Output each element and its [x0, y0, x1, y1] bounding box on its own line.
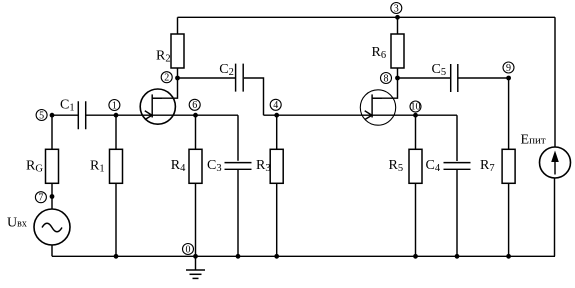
svg-text:5: 5 [39, 110, 44, 121]
node 6 [189, 99, 200, 117]
wire R5 bottom to ground rail [415, 183, 417, 256]
svg-text:C2: C2 [219, 62, 234, 78]
capacitor C3 [225, 163, 252, 170]
transistor VT2 [360, 90, 395, 125]
transistor VT1 [140, 89, 175, 124]
svg-text:Епит: Епит [521, 132, 546, 147]
capacitor C2 [236, 64, 244, 92]
svg-text:2: 2 [164, 73, 169, 84]
capacitor C1 [78, 101, 85, 129]
svg-text:R3: R3 [256, 158, 271, 174]
node 2 [161, 72, 180, 84]
node 4 [270, 99, 281, 117]
current source Epit [540, 147, 571, 178]
node 8 [381, 73, 400, 85]
svg-text:4: 4 [273, 100, 278, 111]
resistor R7 [502, 149, 515, 183]
wire C2 to node 4 [244, 78, 264, 115]
resistor R4 [189, 149, 202, 183]
wire collector lead transistor 2 [372, 78, 397, 98]
junction dot R3 ground [274, 254, 279, 259]
wire top supply rail [178, 16, 556, 18]
svg-text:C3: C3 [207, 158, 222, 174]
wire C4 top drop [456, 115, 458, 161]
junction dot R7 ground [506, 254, 511, 259]
ground [186, 257, 205, 278]
wire C3 bottom to ground rail [237, 170, 239, 257]
wire node 9 drop to R7 [508, 78, 510, 149]
svg-text:7: 7 [38, 193, 43, 204]
resistor R2 [171, 34, 184, 68]
resistor R1 [110, 149, 123, 183]
wire bottom ground rail [52, 255, 555, 257]
wire node 8 to C5 [398, 77, 451, 79]
node 1 [109, 100, 120, 118]
wire C1 to C3 corner through node 1 and node 6 [86, 114, 238, 116]
svg-text:6: 6 [192, 100, 197, 111]
svg-text:RG: RG [26, 159, 43, 175]
wire node 4 down to R3 [276, 115, 278, 149]
wire RG to source through node 7 [51, 183, 53, 209]
svg-text:9: 9 [506, 63, 511, 74]
capacitor C5 [451, 64, 458, 92]
svg-text:R1: R1 [90, 159, 105, 175]
wire R2 bottom to node 2 [177, 68, 179, 78]
source Uvx [34, 209, 70, 245]
wire R3 bottom to ground rail [276, 183, 278, 256]
svg-text:8: 8 [384, 73, 389, 84]
svg-text:R6: R6 [372, 45, 387, 61]
node 3 [391, 3, 402, 20]
capacitor C4 [444, 163, 471, 170]
svg-text:C1: C1 [60, 98, 75, 114]
resistor R3 [270, 149, 283, 183]
svg-text:10: 10 [411, 102, 421, 113]
node 7 [35, 192, 54, 204]
wire node 5 down to RG [51, 115, 53, 149]
wire C5 to node 9 [459, 77, 509, 79]
svg-text:R4: R4 [171, 158, 186, 174]
resistor R5 [409, 149, 422, 183]
wire node 4 to C4 corner through transistor 2 and node 10 [264, 114, 458, 116]
node 10 [410, 101, 421, 118]
wire node 6 down to R4 [195, 115, 197, 149]
node 5 [36, 110, 54, 122]
wire node 10 down to R5 [415, 115, 417, 149]
wire source bottom to ground rail [51, 245, 53, 256]
wire node 5 to C1 [52, 114, 78, 116]
wire collector lead transistor 1 [152, 78, 177, 98]
wire R7 bottom to ground rail [508, 183, 510, 256]
junction dot C4 ground [455, 254, 460, 259]
wire R2 top stub [177, 17, 179, 34]
junction dot R5 ground [413, 254, 418, 259]
svg-text:3: 3 [394, 3, 399, 14]
junction dot C3 ground [236, 254, 241, 259]
wire C4 bottom to ground rail [456, 170, 458, 257]
svg-text:C4: C4 [426, 158, 441, 174]
svg-text:C5: C5 [432, 62, 447, 78]
node 9 [503, 62, 514, 80]
wire current source bottom to ground rail [554, 178, 556, 256]
resistor R6 [391, 34, 404, 68]
wire R6 top stub from node 3 [397, 17, 399, 34]
wire R4 bottom to ground rail [195, 183, 197, 256]
wire C3 top drop [237, 115, 239, 161]
resistor RG [46, 149, 59, 183]
wire R6 bottom to node 8 [397, 68, 399, 78]
junction dot R1 ground [114, 254, 119, 259]
node 0 [183, 244, 198, 259]
svg-text:R2: R2 [156, 49, 171, 65]
svg-text:1: 1 [112, 100, 117, 111]
svg-text:R7: R7 [480, 158, 495, 174]
wire supply right drop to current source [554, 17, 556, 147]
wire node 1 down to R1 [115, 115, 117, 149]
svg-text:R5: R5 [389, 158, 404, 174]
svg-text:0: 0 [186, 244, 191, 255]
wire node 2 to C2 [178, 77, 236, 79]
wire R1 bottom to ground rail [115, 183, 117, 256]
svg-text:Uвх: Uвх [7, 216, 27, 231]
